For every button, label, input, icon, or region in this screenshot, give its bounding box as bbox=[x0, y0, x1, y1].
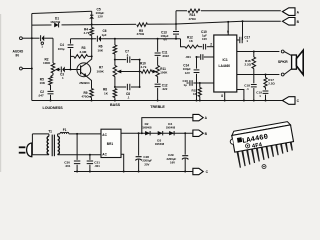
svg-text:4.7k: 4.7k bbox=[141, 65, 147, 69]
wire bass wiper bbox=[122, 71, 140, 73]
connector arrow A psu bbox=[193, 114, 203, 120]
svg-text:LA4460: LA4460 bbox=[219, 64, 231, 68]
svg-text:3.3M: 3.3M bbox=[80, 50, 87, 54]
resistor R6 10K bbox=[114, 39, 116, 45]
potentiometer R11 100K treble bbox=[156, 66, 160, 77]
junction dots rail2 bbox=[91, 24, 93, 26]
connector arrow C psu bbox=[193, 168, 203, 174]
wire branch to arrow A psu bbox=[142, 118, 193, 134]
wire plug to transformer bbox=[31, 134, 33, 155]
svg-text:1N5408: 1N5408 bbox=[142, 126, 152, 130]
ground rail main bbox=[32, 100, 283, 102]
svg-text:1µ: 1µ bbox=[184, 83, 188, 87]
svg-text:SPKR: SPKR bbox=[278, 60, 288, 64]
ground rail psu bbox=[74, 171, 193, 173]
svg-text:100K: 100K bbox=[160, 71, 168, 75]
svg-text:AC: AC bbox=[102, 153, 107, 157]
svg-text:100K: 100K bbox=[43, 61, 51, 65]
ac plug bbox=[27, 143, 32, 157]
svg-text:.1: .1 bbox=[127, 96, 130, 100]
svg-text:.001: .001 bbox=[65, 164, 71, 168]
wire IC out to speaker top bbox=[237, 51, 280, 53]
diode D4 1N5408 bbox=[166, 122, 177, 129]
wire bass summing vertical bbox=[139, 60, 141, 87]
svg-text:10K: 10K bbox=[40, 81, 46, 85]
capacitor C6 bbox=[96, 36, 98, 42]
capacitor C31 line filter bbox=[89, 155, 91, 160]
svg-text:9: 9 bbox=[227, 30, 229, 34]
svg-text:1µF: 1µF bbox=[102, 33, 107, 37]
terminal audio in bottom bbox=[20, 67, 23, 70]
diode D3 1N5408 bbox=[158, 131, 163, 135]
svg-text:D4: D4 bbox=[168, 122, 172, 126]
svg-text:10K: 10K bbox=[98, 48, 104, 52]
potentiometer R7 100K bass bbox=[114, 60, 116, 66]
wire secondary bottom to bridge bbox=[58, 154, 101, 156]
svg-text:BR1: BR1 bbox=[107, 142, 114, 146]
capacitor C16 into IC bbox=[187, 82, 189, 84]
svg-text:F1: F1 bbox=[63, 128, 67, 132]
diode D2 1N5408 bbox=[143, 122, 154, 129]
wire signal line bbox=[71, 38, 97, 40]
svg-text:470Ω: 470Ω bbox=[189, 17, 197, 21]
capacitor C7 bbox=[115, 59, 126, 61]
resistor R4 4.7k bbox=[91, 25, 93, 28]
svg-text:.001: .001 bbox=[94, 164, 100, 168]
svg-text:100K: 100K bbox=[97, 69, 105, 73]
capacitor C14 100uF bbox=[196, 57, 198, 69]
svg-text:1: 1 bbox=[41, 45, 43, 49]
svg-text:IC1: IC1 bbox=[223, 58, 228, 62]
capacitor C12 .022 bbox=[155, 83, 161, 85]
zener D1 1N4739 bbox=[52, 23, 62, 27]
svg-text:12V: 12V bbox=[185, 71, 190, 75]
pin wire IC right to ground bbox=[237, 90, 244, 101]
resistor R17 bbox=[265, 75, 267, 78]
svg-text:.022: .022 bbox=[162, 87, 168, 91]
fuse F1 bbox=[58, 133, 60, 135]
svg-text:1N4739: 1N4739 bbox=[50, 20, 60, 24]
svg-text:100µ: 100µ bbox=[58, 47, 65, 51]
capacitor C29 2200uF bbox=[184, 133, 186, 155]
resistor R14 470 bbox=[187, 8, 201, 13]
svg-text:25V: 25V bbox=[144, 162, 149, 166]
resistor R9 470 bbox=[90, 89, 94, 98]
svg-text:.047: .047 bbox=[38, 94, 44, 98]
transistor Q1 2N3904 bbox=[77, 63, 91, 77]
capacitor C10 1uF bbox=[199, 46, 203, 48]
wire to treble wiper bbox=[152, 71, 153, 73]
connector arrow C main bbox=[282, 97, 295, 105]
wire BR1 plus rail bbox=[121, 132, 193, 134]
capacitor C4 100uF bbox=[70, 39, 72, 44]
svg-text:IN: IN bbox=[16, 54, 20, 58]
capacitor C18 bbox=[253, 69, 255, 84]
svg-text:2: 2 bbox=[210, 42, 212, 46]
wire left input/ground vertical bbox=[31, 14, 33, 101]
resistor R16 bbox=[253, 52, 255, 58]
node treble top bbox=[157, 38, 159, 40]
svg-text:T1: T1 bbox=[48, 130, 52, 134]
capacitor C5 bbox=[91, 11, 93, 24]
potentiometer R2 100K loudness bbox=[51, 63, 55, 73]
connector arrow B bbox=[282, 18, 295, 26]
svg-text:LOUDNESS: LOUDNESS bbox=[43, 106, 64, 110]
svg-text:470Ω: 470Ω bbox=[137, 32, 145, 36]
wire pot to R5a bbox=[51, 73, 54, 77]
svg-text:2.2Ω: 2.2Ω bbox=[245, 62, 252, 66]
capacitor C2 .047 bbox=[50, 85, 52, 90]
wire emitter to R9 bbox=[86, 76, 91, 88]
wire top-right supply rail bbox=[175, 11, 177, 24]
IC1 LA4460 box bbox=[214, 35, 237, 92]
capacitor C8 bbox=[115, 86, 126, 88]
speaker SPKR bbox=[292, 55, 297, 69]
wire rail1 top-left bbox=[32, 11, 92, 13]
IC package LA4460 drawing bbox=[229, 121, 297, 168]
speaker terminals bbox=[281, 50, 284, 53]
svg-text:2N3904: 2N3904 bbox=[79, 81, 90, 85]
svg-text:TREBLE: TREBLE bbox=[150, 105, 165, 109]
svg-text:1N5408: 1N5408 bbox=[155, 142, 165, 146]
svg-text:BASS: BASS bbox=[110, 103, 121, 107]
capacitor C1 bbox=[32, 37, 40, 39]
svg-text:1N5408: 1N5408 bbox=[166, 126, 176, 130]
svg-text:4.7k: 4.7k bbox=[84, 31, 90, 35]
capacitor C9 .001 into IC bbox=[197, 56, 200, 58]
svg-text:6V: 6V bbox=[164, 38, 168, 42]
bridge rectifier BR1 bbox=[101, 129, 121, 157]
wire loudness chain vertical bbox=[52, 38, 54, 63]
wire IC lower out bbox=[237, 74, 280, 76]
resistor R5a 10K bbox=[49, 77, 53, 86]
capacitor C3 bbox=[59, 69, 62, 71]
capacitor C13 100uF bbox=[175, 24, 177, 30]
capacitor C11 .0022 bbox=[157, 39, 159, 52]
svg-text:.0022: .0022 bbox=[162, 54, 170, 58]
node C13 bbox=[175, 38, 177, 40]
capacitor C19 bbox=[265, 88, 267, 90]
wire collector bbox=[86, 39, 92, 64]
node bass top bbox=[114, 38, 116, 40]
resistor R3 3.3M feedback bbox=[71, 55, 74, 57]
connector arrow B psu bbox=[193, 130, 203, 136]
svg-text:10V: 10V bbox=[202, 37, 207, 41]
terminal audio in top bbox=[20, 37, 23, 40]
svg-text:.1: .1 bbox=[126, 53, 129, 57]
wire secondary top to bridge bbox=[69, 133, 101, 135]
capacitor C28 2200uF bbox=[138, 133, 140, 156]
resistor R12 1K bbox=[185, 45, 199, 48]
svg-text:16V: 16V bbox=[170, 161, 175, 165]
resistor R5 470 bbox=[137, 23, 148, 27]
svg-text:2.2Ω: 2.2Ω bbox=[268, 81, 275, 85]
svg-text:.001: .001 bbox=[185, 55, 191, 59]
svg-text:8: 8 bbox=[221, 94, 223, 98]
resistor R8 1K bbox=[113, 89, 117, 98]
resistor R15 bbox=[199, 82, 201, 84]
wire rail2 supply bbox=[32, 21, 281, 25]
svg-text:D3: D3 bbox=[157, 139, 161, 143]
wire BR1 minus down bbox=[121, 154, 124, 171]
pin 8 wire IC bottom bbox=[224, 92, 226, 101]
pin 9 wire IC top bbox=[227, 22, 229, 35]
resistor R10 4.7k bbox=[140, 71, 142, 73]
connector arrow A bbox=[282, 8, 295, 16]
svg-text:D2: D2 bbox=[145, 122, 149, 126]
svg-text:.1: .1 bbox=[246, 87, 249, 91]
svg-text:470Ω: 470Ω bbox=[82, 94, 90, 98]
capacitor C30 line filter bbox=[76, 134, 78, 160]
wire signal to IC bbox=[181, 39, 186, 47]
svg-text:AC: AC bbox=[102, 133, 107, 137]
trademark circle bbox=[262, 165, 266, 169]
capacitor C17 bbox=[242, 21, 244, 40]
